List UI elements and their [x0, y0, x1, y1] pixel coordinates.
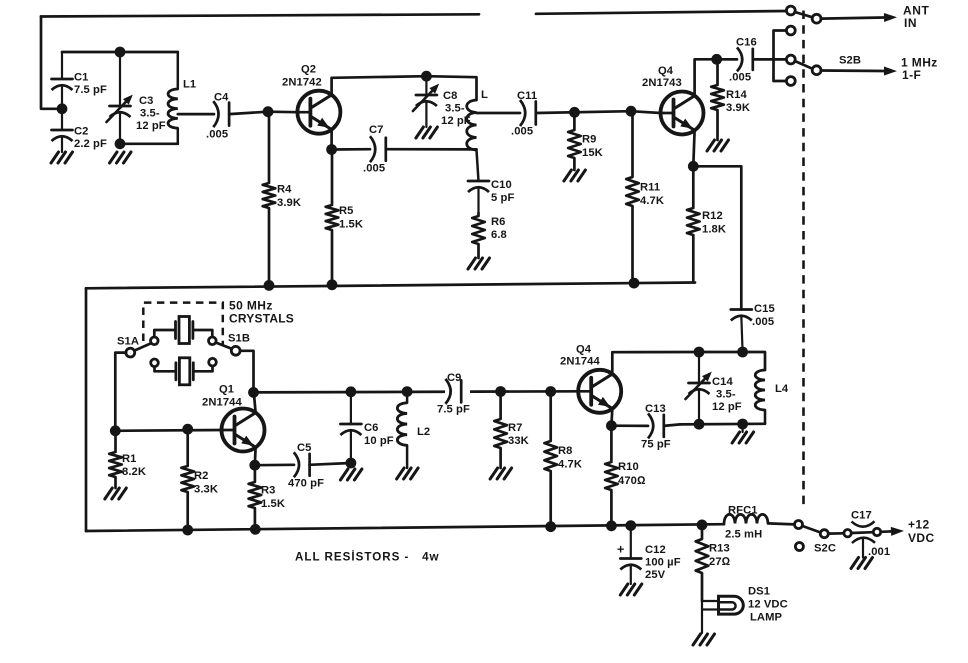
svg-text:C15: C15	[754, 303, 775, 315]
svg-text:R7: R7	[508, 422, 523, 434]
svg-text:12 VDC: 12 VDC	[748, 599, 788, 611]
svg-text:+: +	[617, 543, 624, 557]
label L	[481, 89, 488, 101]
svg-text:CRYSTALS: CRYSTALS	[229, 312, 294, 326]
svg-text:.005: .005	[752, 316, 774, 328]
svg-text:Q4: Q4	[658, 65, 674, 77]
svg-text:IN: IN	[904, 16, 917, 30]
label C5	[288, 442, 324, 490]
svg-text:R8: R8	[558, 445, 573, 457]
switch S2C unused pole	[795, 543, 803, 551]
ground below lamp	[693, 634, 715, 645]
wire C13 to tank bottom	[664, 424, 680, 426]
switch S2C fixed contact	[795, 521, 803, 529]
svg-text:C2: C2	[74, 126, 89, 138]
node Q4 base junction	[626, 106, 637, 117]
wire R13 to lamp	[702, 601, 718, 633]
svg-text:C6: C6	[364, 422, 379, 434]
svg-text:L2: L2	[417, 426, 430, 438]
dashed crystal box	[143, 303, 223, 346]
node input tank top junction	[115, 47, 126, 58]
capacitor C12 electrolytic	[620, 526, 641, 584]
dashed switch linkage line	[802, 11, 805, 510]
switch S1A upper contact	[151, 337, 159, 345]
svg-text:ALL RESİSTORS - 4w: ALL RESİSTORS - 4w	[295, 551, 440, 564]
ground below output tank	[732, 432, 754, 443]
switch S2B moving contact	[812, 66, 821, 75]
wire emitter to C5	[255, 463, 294, 466]
svg-text:C17: C17	[851, 510, 872, 522]
wire bottom supply rail	[86, 524, 724, 531]
wire collector rail to L corner	[426, 76, 476, 100]
label L4	[775, 383, 789, 395]
svg-text:.005: .005	[363, 163, 385, 175]
capacitor C11	[520, 100, 536, 126]
svg-text:2N1744: 2N1744	[560, 356, 600, 368]
label R3	[261, 485, 285, 511]
svg-text:S1A: S1A	[117, 336, 139, 348]
capacitor C17 feedthrough	[852, 521, 876, 557]
wire emitter node to C15 drop	[693, 166, 741, 309]
svg-text:L1: L1	[183, 79, 196, 91]
wire Q1 base line	[115, 429, 221, 432]
capacitor C10	[468, 181, 489, 213]
label C13	[641, 403, 671, 451]
label R13	[709, 543, 731, 569]
label C12 plus	[617, 543, 624, 557]
label DS1	[748, 586, 788, 624]
resistor R9	[568, 112, 581, 170]
svg-text:Q2: Q2	[301, 64, 316, 76]
wire antenna top segment A	[41, 14, 479, 16]
svg-text:6.8: 6.8	[491, 229, 507, 241]
label RFC1	[725, 505, 762, 541]
svg-text:5 pF: 5 pF	[491, 192, 514, 204]
capacitor C4	[213, 101, 229, 127]
capacitor C5	[294, 452, 310, 477]
crystal Y1 upper	[154, 317, 212, 344]
svg-text:R13: R13	[709, 543, 730, 555]
node C14 top junction	[694, 347, 705, 358]
svg-text:.005: .005	[511, 126, 533, 138]
wire L tap to C11	[477, 112, 521, 115]
wire L1 tap to C4	[178, 113, 214, 116]
switch S1B lever	[216, 343, 232, 349]
node C12 top junction	[625, 520, 636, 531]
switch S1B lower contact	[209, 358, 217, 366]
node Q1 collector junction	[248, 387, 259, 398]
node Q2 base junction	[263, 106, 274, 117]
svg-text:C12: C12	[645, 544, 666, 556]
capacitor C8 variable	[413, 76, 439, 127]
resistor R4	[263, 112, 276, 286]
svg-text:27Ω: 27Ω	[709, 556, 731, 568]
label R8	[558, 445, 582, 471]
wire to ANT IN arrow	[821, 13, 897, 22]
ground below C6	[340, 469, 362, 480]
wire C16 to S2B	[753, 58, 787, 61]
switch S2A moving contact	[812, 14, 821, 23]
svg-text:.005: .005	[206, 129, 228, 141]
ground below C2	[51, 152, 73, 163]
inductor L2	[397, 392, 407, 468]
wire C5 to C6 bottom	[310, 463, 351, 465]
label R14	[726, 89, 750, 114]
wire Q1 collector up	[254, 392, 256, 412]
label +12 VDC	[908, 518, 935, 546]
wire R14 node to C16	[717, 58, 737, 61]
ground below C3	[110, 152, 132, 163]
svg-text:R12: R12	[702, 210, 723, 222]
svg-text:1.5K: 1.5K	[339, 219, 363, 231]
svg-text:C13: C13	[645, 403, 666, 415]
label C2	[74, 126, 107, 151]
wire through C17	[852, 531, 873, 534]
switch S2B middle contact	[786, 55, 795, 64]
label C7	[363, 124, 385, 175]
node C1-C2 junction	[57, 103, 68, 114]
svg-text:7.5 pF: 7.5 pF	[74, 84, 107, 96]
svg-text:R14: R14	[726, 89, 748, 101]
svg-text:3.9K: 3.9K	[726, 102, 750, 114]
label S1A	[117, 336, 139, 348]
wire antenna top segment B	[536, 11, 787, 14]
svg-text:2.2 pF: 2.2 pF	[74, 138, 107, 150]
node R14 top junction	[711, 54, 722, 65]
label C9	[437, 372, 470, 416]
node C6 top junction	[346, 386, 357, 397]
label C16	[729, 37, 757, 84]
wire S1B common down to collector node	[240, 351, 254, 393]
switch S1B moving contact	[231, 346, 240, 355]
svg-text:4.7K: 4.7K	[558, 459, 582, 471]
wire Q2 emitter down	[330, 130, 333, 150]
svg-text:Q4: Q4	[576, 344, 592, 356]
svg-text:3.5-: 3.5-	[140, 108, 160, 120]
node R2 top junction	[182, 424, 193, 435]
svg-text:2N1744: 2N1744	[202, 397, 242, 409]
wire Q1 emitter down	[253, 448, 257, 466]
label 1 MHz I-F	[901, 56, 938, 83]
switch S1A lower contact	[151, 359, 159, 367]
svg-text:R9: R9	[582, 134, 597, 146]
label S2B	[839, 55, 861, 67]
svg-text:VDC: VDC	[908, 531, 935, 545]
svg-text:50 MHz: 50 MHz	[229, 299, 273, 313]
wire Q4 mixer emitter down	[610, 409, 614, 426]
label S2C	[814, 543, 836, 555]
label Q1	[202, 384, 242, 409]
lamp DS1	[719, 596, 744, 614]
node R8 bottom junction	[545, 521, 556, 532]
capacitor C15	[731, 310, 752, 353]
svg-text:R3: R3	[261, 485, 276, 497]
label R4	[277, 184, 301, 210]
capacitor C7	[370, 136, 386, 162]
wire to +12 VDC arrow	[881, 527, 904, 536]
svg-text:1.5K: 1.5K	[261, 498, 285, 510]
svg-text:C9: C9	[447, 372, 462, 384]
svg-text:C11: C11	[517, 90, 537, 102]
svg-text:R10: R10	[618, 461, 639, 473]
ground below R1	[105, 488, 127, 499]
capacitor C6	[340, 392, 361, 463]
label ANT IN	[903, 4, 930, 31]
ground below C8	[416, 127, 438, 138]
svg-text:C10: C10	[491, 179, 512, 191]
node R5 bottom junction	[327, 279, 338, 290]
svg-text:1.8K: 1.8K	[702, 224, 726, 236]
svg-text:C14: C14	[712, 376, 734, 388]
svg-text:L4: L4	[775, 383, 789, 395]
ground below R9	[564, 170, 586, 181]
wire S1A common down to base line	[115, 353, 126, 431]
inductor L	[467, 100, 479, 181]
capacitor C3 variable	[107, 52, 133, 144]
svg-text:Q1: Q1	[219, 384, 234, 396]
svg-text:.005: .005	[729, 72, 751, 84]
svg-text:15K: 15K	[582, 147, 603, 159]
node R2 bottom junction	[182, 525, 193, 536]
switch S1B upper contact	[209, 337, 217, 345]
resistor R12	[687, 166, 700, 282]
label R11	[640, 182, 664, 208]
switch contact right of C17	[873, 528, 880, 535]
ground below L2	[397, 468, 419, 479]
switch S1A lever	[134, 343, 151, 350]
node Q1 emitter junction	[249, 460, 260, 471]
svg-text:R6: R6	[491, 216, 506, 228]
svg-text:C16: C16	[736, 37, 757, 49]
transistor Q1	[222, 409, 265, 452]
svg-text:12 pF: 12 pF	[136, 120, 166, 132]
ground below C12	[620, 584, 642, 595]
resistor R14	[711, 59, 724, 140]
svg-text:25V: 25V	[645, 569, 666, 581]
node C14 bottom junction	[694, 419, 705, 430]
ground below R6	[468, 258, 490, 269]
label C10	[491, 179, 514, 204]
wire input tank bottom	[120, 142, 178, 145]
wire Q4 emitter down	[693, 131, 694, 167]
svg-text:+12: +12	[908, 518, 930, 532]
node C8 top junction	[421, 71, 432, 82]
label S1B	[228, 333, 250, 345]
svg-text:S2C: S2C	[814, 543, 836, 555]
wire RFC1 to switch	[768, 523, 795, 524]
svg-text:C8: C8	[443, 90, 458, 102]
svg-text:2N1743: 2N1743	[642, 77, 682, 89]
wire input tank top rail	[62, 51, 178, 54]
switch S2B top contact	[786, 26, 795, 35]
node C15 bottom junction	[737, 347, 748, 358]
node R10 bottom junction	[606, 520, 617, 531]
ground below R7	[490, 468, 512, 479]
svg-text:R1: R1	[122, 453, 137, 465]
label C12	[645, 544, 681, 581]
node C6 bottom junction	[346, 458, 357, 469]
svg-text:R4: R4	[277, 184, 292, 196]
svg-text:470Ω: 470Ω	[618, 475, 646, 487]
svg-text:2.5 mH: 2.5 mH	[725, 529, 762, 541]
svg-text:DS1: DS1	[748, 586, 770, 598]
label C6	[364, 422, 394, 447]
label ALL RESISTORS note	[295, 551, 440, 564]
label C14	[712, 376, 742, 413]
resistor R7	[494, 392, 507, 469]
wire left box edge	[85, 288, 88, 531]
svg-text:7.5 pF: 7.5 pF	[437, 404, 470, 416]
switch S2A lever	[795, 12, 813, 17]
svg-text:L: L	[481, 89, 488, 101]
capacitor C2	[52, 130, 73, 152]
switch S2C lever	[803, 526, 821, 532]
resistor R5	[326, 150, 339, 286]
svg-text:C7: C7	[369, 124, 384, 136]
wire Q4 collector up	[695, 59, 717, 95]
switch S2B lever	[795, 61, 813, 69]
capacitor C14 variable	[686, 352, 712, 424]
svg-text:C1: C1	[74, 72, 89, 84]
svg-text:4.7K: 4.7K	[640, 195, 664, 207]
svg-text:2N1742: 2N1742	[282, 77, 322, 89]
svg-text:.001: .001	[868, 546, 890, 558]
wire to 1 MHz I-F arrow	[821, 67, 897, 76]
node R7 top junction	[495, 386, 506, 397]
node input tank bottom junction	[115, 138, 126, 149]
svg-text:75 pF: 75 pF	[641, 439, 671, 451]
svg-text:S1B: S1B	[228, 333, 250, 345]
wire Q2 collector up	[332, 76, 427, 95]
label R7	[508, 422, 529, 447]
node R11 bottom junction	[629, 278, 640, 289]
label R6	[491, 216, 507, 241]
label C15	[752, 303, 775, 328]
node mixer emitter junction	[606, 420, 617, 431]
switch S1A moving contact	[126, 348, 135, 357]
resistor R3	[249, 465, 262, 529]
inductor L4	[755, 370, 765, 424]
switch S2A fixed contact	[786, 6, 795, 15]
node R3 bottom junction	[250, 524, 261, 535]
resistor R10	[605, 426, 618, 526]
svg-text:3.9K: 3.9K	[277, 197, 301, 209]
wire switch to C17 contact	[828, 532, 843, 535]
label Q2	[282, 64, 322, 89]
node R4 bottom junction	[264, 280, 275, 291]
label R2	[194, 470, 218, 496]
transistor Q4 2N1743	[661, 92, 704, 135]
wire emitter to C13	[611, 424, 648, 427]
wire ground stem	[741, 424, 743, 432]
svg-text:C3: C3	[139, 95, 154, 107]
wire C11 to Q4 base node	[536, 111, 631, 113]
capacitor C13	[648, 413, 664, 438]
node Q2 emitter junction	[326, 144, 337, 155]
label R5	[339, 205, 363, 231]
wire Q4 mixer collector up	[612, 352, 699, 374]
transistor Q2	[297, 91, 340, 134]
label R9	[582, 134, 603, 160]
node Q4 emitter junction	[688, 161, 699, 172]
wire base node to Q4	[631, 111, 661, 113]
label L1	[183, 79, 196, 91]
label C8	[441, 90, 471, 127]
ground below C17	[851, 558, 873, 569]
switch S2B bracket	[774, 31, 787, 82]
node tank ground junction	[737, 419, 748, 430]
svg-text:3.3K: 3.3K	[194, 484, 218, 496]
node R8 top junction	[545, 386, 556, 397]
node R1 top junction	[110, 425, 121, 436]
capacitor C9	[445, 379, 470, 404]
label C11	[511, 90, 537, 138]
resistor R6	[472, 213, 485, 258]
svg-text:33K: 33K	[508, 435, 529, 447]
capacitor C16	[737, 47, 753, 71]
node L2 top junction	[402, 386, 413, 397]
label C17	[851, 510, 890, 559]
ground below R14	[707, 140, 729, 151]
switch contact left of C17	[844, 530, 851, 537]
resistor R1	[109, 431, 122, 488]
svg-text:R5: R5	[339, 205, 354, 217]
svg-text:R11: R11	[640, 182, 660, 194]
inductor L1	[168, 52, 178, 144]
transistor Q4 2N1744	[578, 370, 621, 413]
svg-text:1-F: 1-F	[902, 68, 921, 82]
label Q4 2N1744	[560, 344, 600, 368]
svg-text:C4: C4	[214, 92, 229, 104]
wire oscillator rail	[254, 391, 579, 392]
label R12	[702, 210, 726, 236]
resistor R13	[696, 525, 709, 601]
svg-text:100 µF: 100 µF	[645, 557, 681, 569]
label R1	[122, 453, 146, 478]
label R10	[618, 461, 646, 487]
label C1	[74, 72, 107, 97]
wire base node to Q2	[268, 110, 297, 113]
wire C7 to L bottom	[386, 148, 477, 151]
wire tank top rail to L4	[699, 352, 765, 370]
svg-text:8.2K: 8.2K	[122, 466, 146, 478]
capacitor C1	[52, 52, 73, 130]
svg-text:3.5-: 3.5-	[716, 389, 736, 401]
label C3	[136, 95, 166, 132]
resistor R8	[544, 392, 557, 527]
label Q4 2N1743	[642, 65, 682, 89]
svg-text:470 pF: 470 pF	[288, 478, 324, 490]
label C4	[206, 92, 229, 141]
wire left vertical from antenna line to C1-C2 junction	[41, 17, 62, 109]
svg-text:R2: R2	[194, 470, 209, 482]
resistor R11	[626, 111, 639, 282]
wire tank bottom rail	[680, 410, 765, 424]
resistor R2	[181, 429, 194, 530]
svg-text:C5: C5	[297, 442, 312, 454]
label 50 MHz CRYSTALS	[229, 299, 294, 326]
svg-text:12 pF: 12 pF	[712, 401, 742, 413]
node R9 top junction	[569, 107, 580, 118]
switch S2C moving contact	[820, 530, 828, 538]
svg-text:LAMP: LAMP	[750, 612, 783, 624]
wire emitter to C7	[332, 148, 370, 151]
wire C4 to Q2 base	[229, 112, 268, 114]
crystal Y2 lower	[155, 358, 213, 385]
svg-text:10 pF: 10 pF	[364, 435, 394, 447]
svg-text:S2B: S2B	[839, 55, 861, 67]
node R13 top junction	[697, 520, 708, 531]
